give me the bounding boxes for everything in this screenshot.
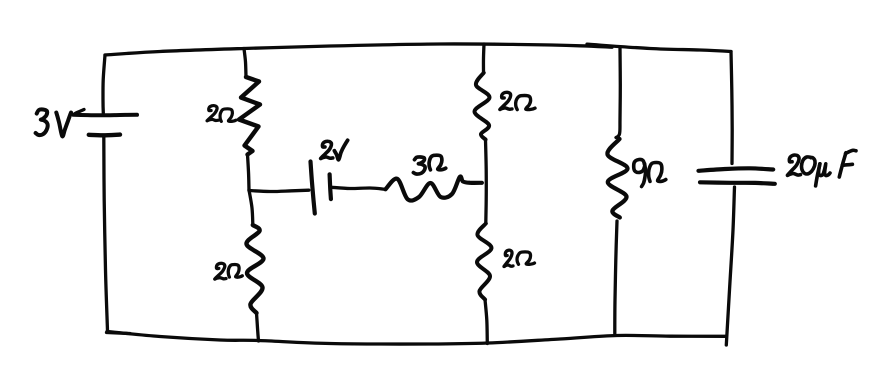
wire branch-A top stub (top net to R1): [244, 49, 246, 77]
wire middle branch left segment (node M1 to battery V2): [249, 190, 309, 191]
wire bottom net: [107, 332, 726, 345]
wire branch-B middle segment (R4 to node M2 to R5): [484, 140, 488, 224]
wire branch-B bottom stub (R5 to bottom net): [485, 300, 487, 344]
wire bottom-left corner overlap tick: [107, 333, 131, 334]
resistor R6 9-ohm (vertical squiggle): [607, 139, 627, 218]
label 2-ohm (R2): [215, 263, 243, 279]
capacitor C1 bottom plate: [700, 182, 775, 184]
label 2-ohm (R1): [207, 106, 236, 122]
label 3-ohm (R3): [413, 155, 445, 174]
label 2-ohm (R4): [500, 92, 535, 109]
label 9-ohm (R6): [634, 159, 666, 186]
label 3V: [36, 109, 71, 136]
battery V1 3V short plate (-): [89, 132, 120, 137]
wire right vertical lower (C1 to bottom-right corner): [726, 187, 734, 345]
wire right vertical upper (top-right corner to C1): [731, 52, 732, 164]
resistor R3 3-ohm (horizontal squiggle): [386, 176, 482, 200]
resistor R5 2-ohm (bottom-right squiggle): [477, 224, 492, 300]
wire branch-B top stub (top net to R4): [482, 44, 486, 72]
wire branch-A bottom stub (R2 to bottom net): [257, 313, 259, 341]
resistor R4 2-ohm (top-right squiggle): [474, 73, 489, 140]
wire left vertical upper (corner to battery V1 +): [103, 55, 105, 113]
resistor R1 2-ohm (top-left zigzag): [239, 77, 260, 155]
wire branch-C bottom stub (R6 to bottom net): [615, 221, 617, 334]
label 20uF (C1): [787, 150, 856, 186]
wire branch-A stub (node M1 to R2): [249, 190, 253, 224]
wire branch-A middle stub (R1 to node M1): [248, 155, 250, 191]
battery V1 3V long plate (+) with lead-in barb: [74, 110, 138, 116]
wire top net (overlap segment to top-right corner): [587, 44, 731, 51]
resistor R2 2-ohm (bottom-left squiggle): [246, 225, 263, 313]
wire top net (top-left corner to 9-ohm branch): [105, 44, 612, 55]
battery V2 2V long plate (+): [311, 162, 315, 214]
battery V2 2V short plate (-): [330, 174, 331, 199]
wire branch-C top stub (top net to R6) with hook: [616, 48, 620, 138]
label 2-ohm (R5): [504, 250, 535, 266]
wire middle branch right segment (battery V2 to R3): [332, 187, 386, 189]
label 2V: [321, 140, 348, 159]
wire left vertical lower (battery V1 - to bottom-left corner): [104, 136, 108, 331]
capacitor C1 top plate: [699, 168, 774, 171]
